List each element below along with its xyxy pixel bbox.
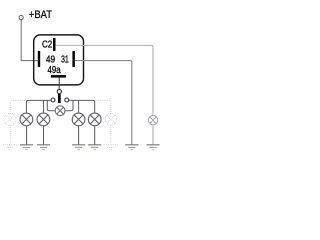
- wire 49a down to switch: [58, 78, 60, 90]
- lamp R1: [72, 113, 85, 126]
- dashed wire left lamp to ground: [9, 125, 11, 144]
- wire from pin 31 to ground right: [75, 61, 132, 145]
- wire small lamp to ground: [152, 125, 154, 144]
- wire stub lamp L2: [42, 100, 44, 113]
- dashed lamp far left: [4, 113, 16, 125]
- switch right contact: [65, 98, 69, 102]
- wire lamp R2 to ground: [94, 126, 96, 145]
- wire lamp R1 to ground: [78, 126, 80, 145]
- dashed ground right: [104, 145, 117, 150]
- lamp small on C2 wire: [148, 116, 157, 125]
- switch common terminal circle: [57, 89, 61, 93]
- dashed wire right lamp top: [96, 100, 111, 113]
- ground under R2: [88, 144, 101, 150]
- svg-text:31: 31: [61, 55, 69, 66]
- wire pilot right to right T: [65, 100, 73, 110]
- wire left contact to left lamps: [26, 100, 51, 113]
- pilot lamp: [55, 106, 65, 116]
- pin 49a blade: [51, 75, 66, 78]
- lamp R2: [88, 113, 101, 126]
- ground under L1: [20, 144, 33, 150]
- svg-text:+BAT: +BAT: [29, 9, 52, 21]
- switch blade: [58, 94, 61, 103]
- wire stub lamp R1: [78, 100, 80, 113]
- dashed ground far left: [4, 145, 17, 150]
- pin C2 blade: [53, 38, 56, 51]
- wire left T down to pilot lamp: [47, 100, 55, 110]
- wire lamp L2 to ground: [43, 126, 45, 145]
- ground under L2: [37, 144, 50, 150]
- ground under 31 wire: [125, 144, 138, 150]
- lamp L2: [37, 113, 50, 126]
- wire lamp L1 to ground: [26, 126, 28, 145]
- wire from C2 to right column: [56, 45, 154, 115]
- svg-text:49a: 49a: [48, 65, 61, 76]
- dashed wire left lamp top: [10, 100, 25, 113]
- svg-text:C2: C2: [42, 40, 53, 51]
- dashed wire right lamp to ground: [110, 125, 112, 144]
- wire right contact to right lamps: [69, 100, 95, 113]
- lamp L1: [20, 113, 33, 126]
- node +BAT terminal circle: [19, 15, 23, 19]
- dashed lamp right group: [105, 114, 117, 126]
- pin 49 blade: [38, 51, 40, 67]
- pin 31 blade: [72, 51, 75, 67]
- ground under R1: [72, 144, 85, 150]
- wire from +BAT to pin 49: [21, 20, 38, 61]
- ground under C2 wire: [146, 144, 159, 150]
- switch left contact: [51, 98, 55, 102]
- relay box U1 (flasher unit): [34, 35, 84, 85]
